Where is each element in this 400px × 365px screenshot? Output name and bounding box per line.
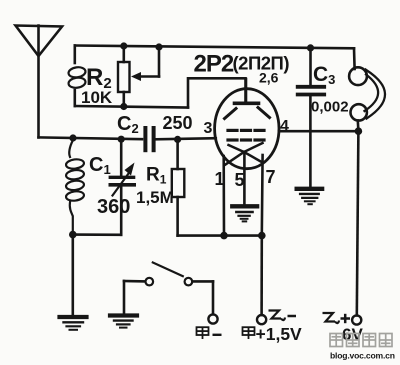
wire: pin 7 lead [260,155,263,236]
ground (C3) [297,189,322,204]
node: C3 top junction [307,44,314,51]
svg-text:2,6: 2,6 [259,70,279,86]
node: antenna coil tap [69,134,76,141]
wire: R2 bottom bus to plate riser [75,106,188,108]
svg-text:250: 250 [163,113,193,133]
svg-text:1,5M: 1,5M [136,188,174,207]
headphone earpiece top [349,67,367,85]
variable capacitor C1 [110,139,134,235]
wire: pin 4 (screen) to B+ rail [279,130,359,133]
capacitor C2 [145,128,153,150]
svg-text:4: 4 [280,118,289,135]
node: coil bottom junction [69,231,77,239]
headphone band [365,70,386,119]
label 乙+ (B plus) [323,313,351,323]
svg-text:5: 5 [235,170,245,190]
wire: C2 to tube grid pin 3 [156,138,216,139]
svg-text:7: 7 [266,167,276,187]
svg-text:0,002: 0,002 [311,99,349,116]
inductor R2 coil (left side of R2 loop) [68,46,86,107]
label 甲- (A minus) [197,327,222,339]
wire: headphone drop from top bus [353,48,356,69]
tube grid dashes [228,130,264,140]
terminal 乙+ [352,315,361,324]
potentiometer R2 body [118,46,130,107]
node: R2 bottom junction [120,103,127,110]
wire: filament bus [178,234,262,237]
inductor C1 coil (antenna coil) [66,140,85,232]
node: pin7 junction [258,232,266,240]
ground (pin 5) [232,206,257,221]
antenna [16,26,63,138]
headphone earpiece bottom [351,104,367,120]
wire: to left ground [72,235,75,315]
node: tuning cap tap [118,136,125,143]
wire: pin 1 lead [222,156,225,236]
svg-text:1: 1 [215,169,225,189]
resistor R1 [172,139,185,235]
terminal 甲+/乙- [257,315,266,324]
node: R2 top junction [120,42,127,49]
label 甲+1,5V [243,327,255,339]
wire: main grid bus (antenna to C2) [39,137,143,139]
svg-text:blog.voc.com.cn: blog.voc.com.cn [330,351,395,361]
svg-text:+1,5V: +1,5V [256,324,303,344]
label 乙- (B minus) [269,311,297,321]
tube plate top cap [235,78,259,103]
wiper arm of potentiometer R2 [131,47,159,81]
ground (left, tuned circuit) [60,317,87,330]
node: headphone bottom junction [355,127,363,135]
switch S1 [124,263,213,315]
tube filament [226,143,263,165]
ground (switch) [110,316,137,328]
watermark characters [330,334,392,347]
tube U1 envelope [215,89,279,169]
svg-text:360: 360 [97,196,130,218]
wire: riser to tube plate cap [188,78,246,107]
svg-text:2P2: 2P2 [194,51,234,78]
terminal 甲- [208,314,217,323]
node: pin1 junction [220,232,228,240]
svg-text:3: 3 [204,120,213,137]
node: R1 tap [174,136,181,143]
wire: pin 5 lead to ground [243,152,246,204]
wire: headphone to B+ rail [356,121,359,132]
node: wiper top junction [155,43,162,50]
wire: to battery terminal [260,236,263,315]
wire: top bus from R2 loop to headphone corner [75,46,354,49]
svg-text:10K: 10K [81,88,113,107]
wire: tuned circuit bottom [73,233,121,236]
tube anode corner marks [225,108,270,119]
wire: B+ rail down to terminal [357,131,359,315]
capacitor C3 [298,48,325,186]
